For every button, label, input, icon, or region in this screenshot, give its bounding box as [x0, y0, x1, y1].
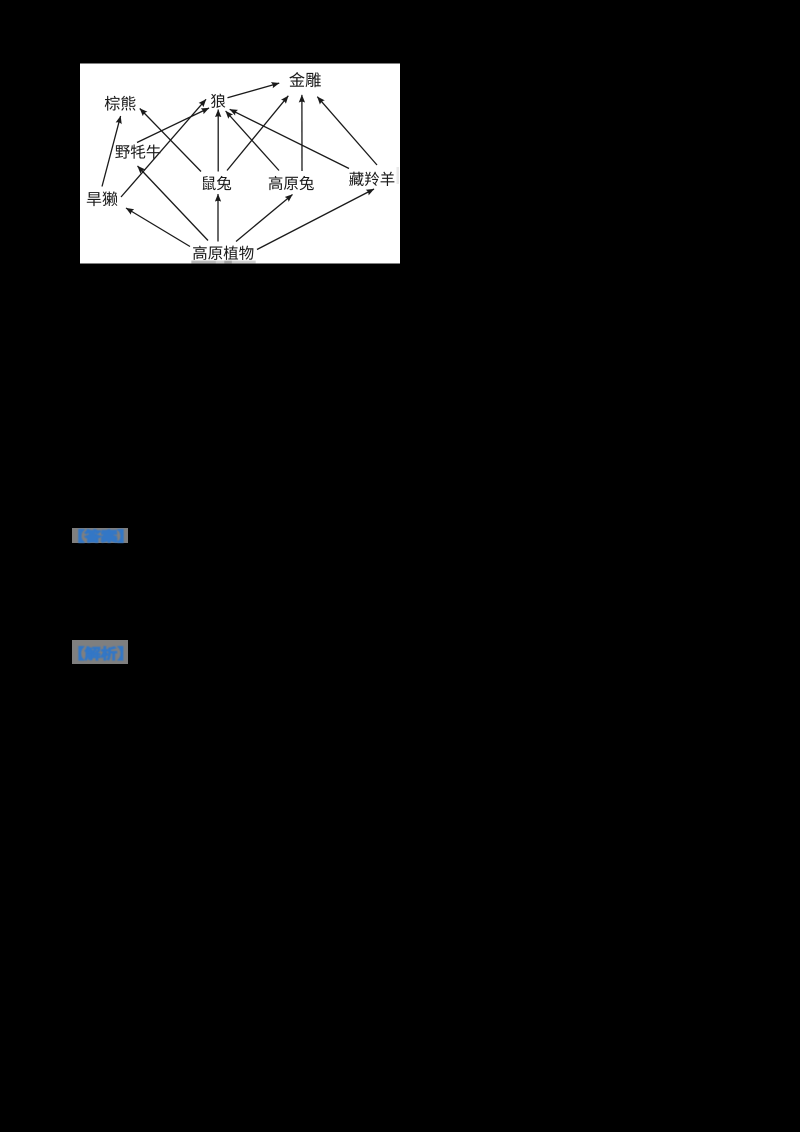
food-web diagram panel	[80, 63, 400, 266]
node shutu 鼠兔	[203, 176, 232, 190]
arrow wolf to golden-eagle 狼→金雕	[228, 83, 280, 98]
answer badge 【答案】	[72, 528, 128, 544]
arrow antelope to wolf 藏羚羊→狼	[230, 109, 349, 168]
arrow antelope to golden-eagle 藏羚羊→金雕	[317, 97, 377, 165]
arrow pika to golden-eagle 鼠兔→金雕	[227, 96, 288, 171]
node gaoyuanzhiwu 高原植物	[193, 246, 253, 260]
arrow wild-yak to wolf 野牦牛→狼	[137, 108, 209, 143]
node zanglingyang 藏羚羊	[349, 172, 394, 186]
node gaoyuantu 高原兔	[269, 176, 314, 190]
faint cursor artifact right of 藏羚羊	[397, 167, 400, 184]
arrow marmot to wolf 旱獭→狼	[121, 99, 206, 197]
arrow pika to brown-bear 鼠兔→棕熊	[140, 109, 201, 172]
arrow marmot to brown-bear 旱獭→棕熊	[102, 116, 121, 187]
arrow plants to marmot 高原植物→旱獭	[126, 208, 190, 247]
arrow plants to pika 高原植物→鼠兔	[217, 194, 219, 242]
arrow hare to golden-eagle 高原兔→金雕	[301, 95, 303, 171]
arrow hare to wolf 高原兔→狼	[226, 111, 279, 171]
node jindiao 金雕	[289, 72, 321, 87]
node yemaoniu 野牦牛	[115, 144, 160, 158]
arrow plants to wild-yak 高原植物→野牦牛	[138, 166, 209, 241]
arrow plants to hare 高原植物→高原兔	[236, 195, 293, 242]
analysis badge 【解析】	[72, 640, 128, 664]
white picture background	[80, 64, 400, 264]
node hanta 旱獭	[87, 191, 118, 206]
node zongxiong 棕熊	[105, 96, 136, 111]
arrow plants to antelope 高原植物→藏羚羊	[257, 189, 374, 250]
gray scan bar under 高原植物	[191, 261, 255, 264]
node lang 狼	[211, 94, 225, 108]
arrow pika to wolf 鼠兔→狼	[217, 110, 219, 172]
